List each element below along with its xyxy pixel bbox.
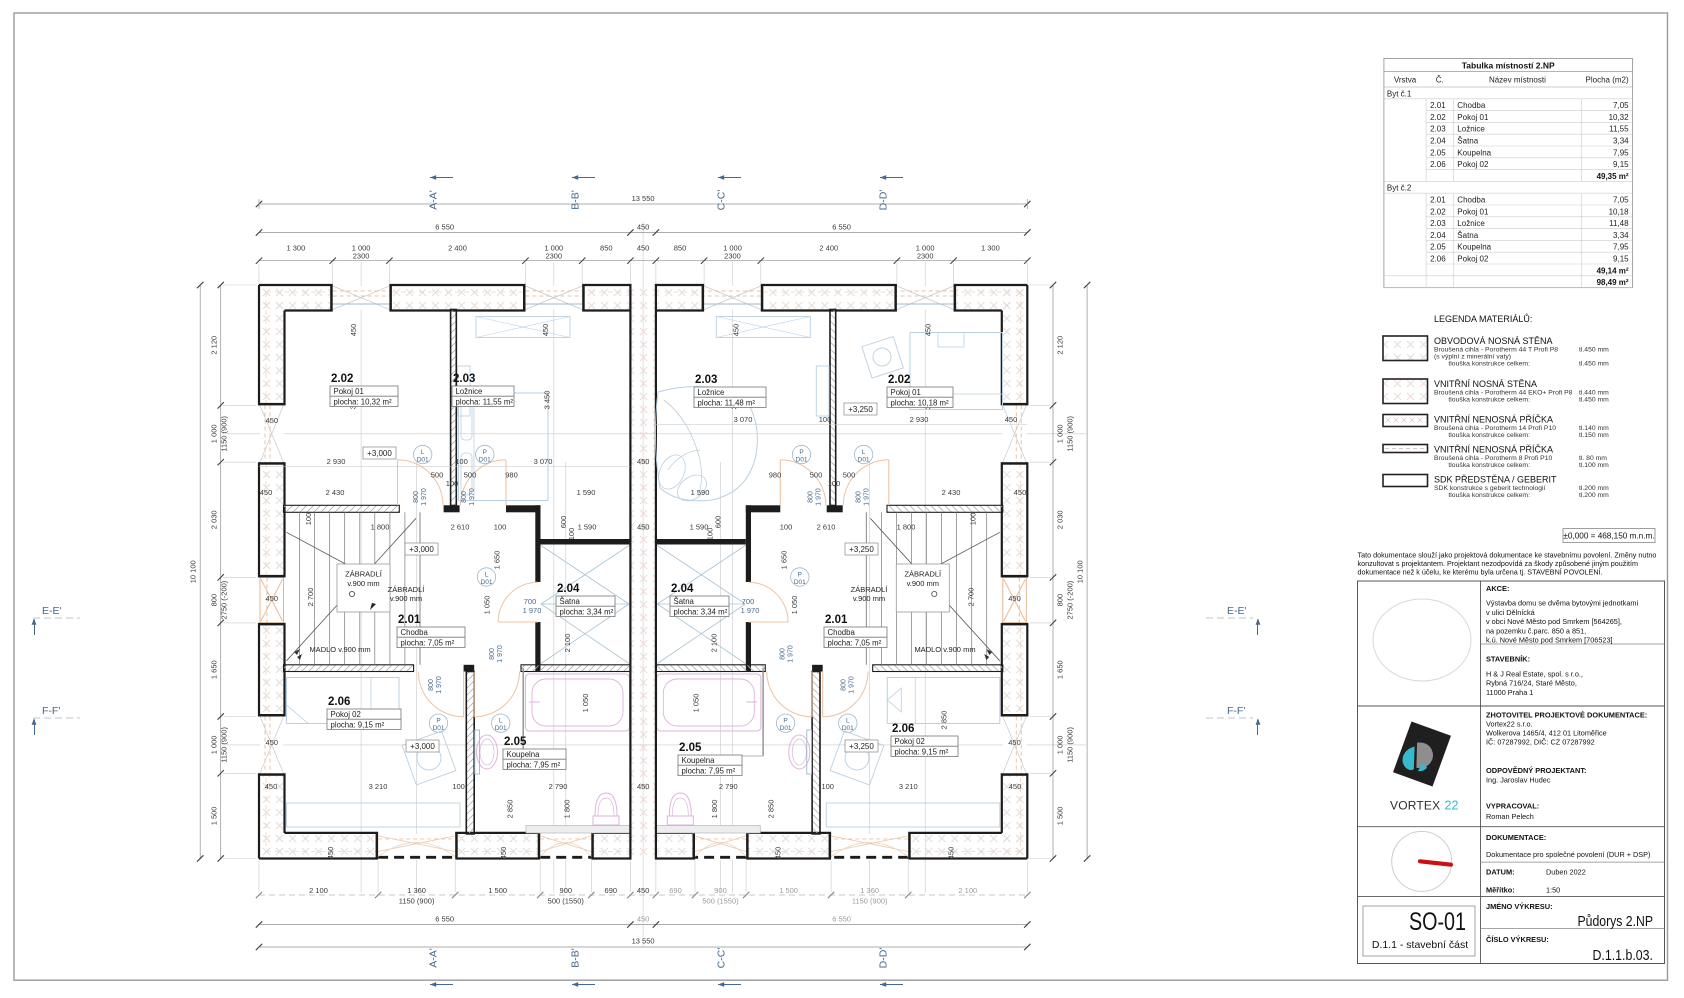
corridor wall east segment	[506, 505, 541, 512]
svg-text:+3,000: +3,000	[367, 449, 392, 458]
svg-text:13 550: 13 550	[632, 937, 655, 946]
svg-text:Chodba: Chodba	[401, 628, 429, 637]
svg-text:ZÁBRADLÍ: ZÁBRADLÍ	[388, 585, 426, 594]
interior dims row left unit y=464	[259, 466, 630, 468]
shower screen	[522, 668, 524, 756]
divider cap	[812, 665, 823, 672]
svg-text:v.900 mm: v.900 mm	[853, 594, 885, 603]
geberit wall	[656, 826, 760, 834]
toilet	[593, 816, 619, 825]
svg-text:Pokoj 01: Pokoj 01	[891, 388, 921, 397]
svg-text:11,55: 11,55	[1609, 125, 1629, 134]
svg-text:2 850: 2 850	[506, 800, 515, 819]
svg-text:Šatna: Šatna	[560, 597, 581, 606]
svg-text:500: 500	[843, 471, 856, 480]
svg-text:tl.200 mm: tl.200 mm	[1579, 492, 1609, 499]
door D01 to room 2.02	[888, 460, 890, 506]
svg-text:2 120: 2 120	[1056, 336, 1065, 355]
wall edge lines	[259, 284, 333, 286]
right dimension column: overall 10100	[1086, 285, 1088, 859]
wardrobe cross 2	[541, 604, 629, 664]
svg-text:450: 450	[1014, 488, 1027, 497]
svg-text:Wolkerova 1465/4, 412 01 Litom: Wolkerova 1465/4, 412 01 Litoměřice	[1486, 729, 1607, 738]
svg-text:plocha: 7,95 m²: plocha: 7,95 m²	[507, 760, 561, 769]
svg-text:DATUM:: DATUM:	[1486, 867, 1515, 876]
section marker B-B' (top)	[572, 177, 595, 179]
svg-text:JMÉNO VÝKRESU:: JMÉNO VÝKRESU:	[1486, 902, 1553, 911]
window (left wall)	[260, 405, 284, 462]
svg-text:v obci Nové Město pod Smrkem [: v obci Nové Město pod Smrkem [564265],	[1486, 617, 1622, 626]
window (bottom wall)	[695, 834, 746, 860]
svg-text:plocha: 7,05 m²: plocha: 7,05 m²	[828, 638, 882, 647]
svg-text:11000 Praha 1: 11000 Praha 1	[1486, 688, 1533, 697]
svg-text:100: 100	[567, 528, 576, 541]
svg-text:690: 690	[605, 886, 618, 895]
svg-text:2 930: 2 930	[327, 457, 346, 466]
svg-text:1 970: 1 970	[787, 645, 794, 663]
svg-text:L: L	[421, 449, 425, 456]
staircase window (left wall)	[1003, 577, 1027, 622]
svg-text:ODPOVĚDNÝ PROJEKTANT:: ODPOVĚDNÝ PROJEKTANT:	[1486, 766, 1586, 775]
svg-text:3 210: 3 210	[899, 782, 918, 791]
handrail arrow	[297, 654, 302, 660]
svg-text:7,05: 7,05	[1613, 101, 1629, 110]
svg-text:2 120: 2 120	[210, 336, 219, 355]
svg-text:2.03: 2.03	[1430, 125, 1446, 134]
svg-text:Koupelna: Koupelna	[507, 750, 541, 759]
svg-text:9,15: 9,15	[1613, 255, 1629, 264]
svg-text:1 970: 1 970	[436, 676, 443, 694]
svg-text:1 970: 1 970	[741, 606, 760, 615]
svg-text:6 550: 6 550	[832, 915, 851, 924]
svg-text:Ložnice: Ložnice	[698, 388, 725, 397]
svg-text:Koupelna: Koupelna	[682, 756, 716, 765]
svg-text:2 610: 2 610	[451, 523, 470, 532]
elevation datum box	[1563, 529, 1655, 543]
svg-text:plocha: 3,34 m²: plocha: 3,34 m²	[674, 607, 728, 616]
bed room 2.03 right (sketchy)	[654, 386, 758, 506]
outer bottom wall	[259, 833, 378, 859]
svg-text:450: 450	[1009, 782, 1022, 791]
svg-text:2.03: 2.03	[453, 373, 475, 385]
svg-text:+3,000: +3,000	[410, 742, 435, 751]
window (bottom wall)	[378, 834, 455, 860]
door D01 to bathroom 2.05	[811, 672, 813, 717]
svg-text:500 (1550): 500 (1550)	[702, 897, 739, 906]
svg-text:Pokoj 02: Pokoj 02	[1457, 160, 1489, 169]
svg-text:Broušená cihla - Porotherm 14: Broušená cihla - Porotherm 14 Profi P10	[1434, 425, 1556, 432]
svg-text:plocha: 9,15 m²: plocha: 9,15 m²	[895, 747, 949, 756]
satna west wall upper	[746, 505, 751, 582]
svg-text:450: 450	[349, 324, 358, 337]
svg-text:P: P	[799, 449, 803, 456]
svg-text:MADLO v.900 mm: MADLO v.900 mm	[914, 645, 975, 654]
elevation marker +3,000	[405, 543, 438, 555]
svg-text:100: 100	[494, 523, 507, 532]
svg-text:F-F': F-F'	[42, 705, 60, 717]
svg-text:D-D': D-D'	[878, 948, 890, 969]
svg-text:1 650: 1 650	[780, 551, 789, 570]
svg-text:Chodba: Chodba	[828, 628, 856, 637]
interior dims row right unit y=422	[656, 424, 1027, 426]
satna north wall	[656, 539, 746, 545]
svg-text:v.900 mm: v.900 mm	[347, 579, 379, 588]
svg-text:2 100: 2 100	[958, 886, 977, 895]
svg-text:tlouška konstrukce celkem:: tlouška konstrukce celkem:	[1448, 432, 1530, 439]
svg-text:2750 (-200): 2750 (-200)	[220, 580, 229, 619]
bed room 2.06 left	[287, 678, 400, 724]
svg-text:A-A': A-A'	[428, 190, 440, 210]
door D01 to satna 2.04	[748, 621, 788, 623]
svg-text:49,14 m²: 49,14 m²	[1597, 266, 1629, 275]
svg-text:Šatna: Šatna	[1457, 137, 1478, 146]
svg-text:450: 450	[1008, 594, 1021, 603]
svg-text:450: 450	[541, 324, 550, 337]
svg-text:2 100: 2 100	[709, 634, 718, 653]
svg-text:1 000: 1 000	[1056, 736, 1065, 755]
svg-text:600: 600	[559, 516, 568, 529]
svg-text:Broušená cihla - Porotherm 44: Broušená cihla - Porotherm 44 T Profi P8	[1434, 347, 1558, 354]
svg-text:450: 450	[265, 782, 278, 791]
svg-text:1 650: 1 650	[493, 551, 502, 570]
svg-text:1 800: 1 800	[897, 523, 916, 532]
desk 2.06 right	[826, 803, 1000, 827]
svg-text:2.05: 2.05	[504, 736, 527, 748]
svg-text:2.06: 2.06	[1430, 255, 1446, 264]
svg-text:(s výplní z minerální vaty): (s výplní z minerální vaty)	[1434, 354, 1511, 361]
svg-text:VORTEX: VORTEX	[1390, 799, 1440, 813]
svg-text:1 800: 1 800	[371, 523, 390, 532]
bathroom north wall (hatched)	[521, 665, 630, 672]
svg-text:na pozemku č.parc. 850 a 851,: na pozemku č.parc. 850 a 851,	[1486, 626, 1586, 635]
svg-text:plocha: 3,34 m²: plocha: 3,34 m²	[560, 607, 614, 616]
chair 2.06 left	[402, 731, 456, 785]
svg-text:450: 450	[637, 244, 650, 253]
svg-text:100: 100	[780, 523, 793, 532]
window (top wall)	[333, 286, 390, 310]
party wall	[630, 285, 656, 859]
svg-text:450: 450	[266, 738, 279, 747]
wall insulation line	[656, 291, 1020, 293]
svg-text:11,48: 11,48	[1609, 219, 1629, 228]
svg-text:Koupelna: Koupelna	[1457, 148, 1491, 157]
svg-text:Ložnice: Ložnice	[1457, 219, 1485, 228]
svg-text:tlouška konstrukce celkem:: tlouška konstrukce celkem:	[1448, 462, 1530, 469]
svg-text:2.03: 2.03	[695, 374, 717, 386]
svg-text:2 700: 2 700	[966, 588, 975, 607]
svg-text:800: 800	[855, 491, 862, 503]
svg-text:ZÁBRADLÍ: ZÁBRADLÍ	[851, 585, 889, 594]
washbasin	[789, 735, 810, 769]
desk 2.03 right	[816, 366, 829, 416]
svg-text:Pokoj 02: Pokoj 02	[895, 737, 925, 746]
svg-text:1150 (900): 1150 (900)	[1066, 415, 1075, 451]
svg-text:800: 800	[461, 491, 468, 503]
left unit geometry	[259, 285, 630, 860]
svg-text:2 400: 2 400	[819, 244, 838, 253]
legend item SDK PŘEDSTĚNA / GEBERIT	[1383, 475, 1428, 487]
svg-text:1 970: 1 970	[497, 645, 504, 663]
svg-text:1 800: 1 800	[562, 800, 571, 819]
svg-text:2.03: 2.03	[1430, 219, 1446, 228]
svg-text:Chodba: Chodba	[1457, 101, 1486, 110]
svg-text:tl. 80 mm: tl. 80 mm	[1579, 455, 1607, 462]
svg-text:plocha: 10,18 m²: plocha: 10,18 m²	[891, 398, 949, 407]
left dimension column: detailed	[220, 285, 222, 859]
svg-text:2 850: 2 850	[939, 711, 948, 730]
satna west wall upper	[535, 505, 540, 582]
top dimension row: overall 13550	[259, 203, 1027, 205]
svg-text:2750 (-200): 2750 (-200)	[1066, 580, 1075, 619]
svg-text:1 500: 1 500	[1056, 807, 1065, 826]
svg-text:10,18: 10,18	[1609, 207, 1630, 216]
partition wall between rooms 2.02 and 2.03	[451, 310, 457, 506]
svg-text:450: 450	[266, 594, 279, 603]
svg-text:2.01: 2.01	[1430, 101, 1446, 110]
svg-text:7,95: 7,95	[1613, 243, 1629, 252]
svg-text:P: P	[436, 718, 440, 725]
svg-text:Broušená cihla - Porotherm 8 P: Broušená cihla - Porotherm 8 Profi P10	[1434, 455, 1552, 462]
left dimension column: overall 10100	[199, 285, 201, 859]
svg-text:v.900 mm: v.900 mm	[390, 594, 422, 603]
svg-text:plocha: 7,05 m²: plocha: 7,05 m²	[401, 638, 455, 647]
svg-text:2.02: 2.02	[1430, 113, 1446, 122]
window (left wall)	[1003, 717, 1027, 774]
svg-text:450: 450	[731, 324, 740, 337]
svg-text:MADLO v.900 mm: MADLO v.900 mm	[309, 645, 370, 654]
svg-text:Duben 2022: Duben 2022	[1546, 867, 1586, 876]
svg-text:2.05: 2.05	[1430, 243, 1446, 252]
svg-text:STAVEBNÍK:: STAVEBNÍK:	[1486, 655, 1530, 664]
svg-text:800: 800	[210, 594, 219, 607]
svg-text:D01: D01	[796, 457, 808, 464]
svg-text:OBVODOVÁ NOSNÁ STĚNA: OBVODOVÁ NOSNÁ STĚNA	[1434, 336, 1553, 346]
svg-text:tl.450 mm: tl.450 mm	[1579, 361, 1609, 368]
svg-text:Broušená cihla - Porotherm 44: Broušená cihla - Porotherm 44 EKO+ Profi…	[1434, 390, 1573, 397]
svg-text:2300: 2300	[353, 251, 370, 260]
svg-text:tl.440 mm: tl.440 mm	[1579, 390, 1609, 397]
svg-text:D01: D01	[842, 725, 854, 732]
outer top wall	[954, 285, 1028, 311]
svg-text:10 100: 10 100	[1076, 560, 1085, 583]
svg-text:VNITŘNÍ NENOSNÁ PŘÍČKA: VNITŘNÍ NENOSNÁ PŘÍČKA	[1434, 445, 1553, 455]
svg-text:2 100: 2 100	[309, 886, 328, 895]
svg-text:Koupelna: Koupelna	[1457, 243, 1491, 252]
top dimension row: detailed	[259, 260, 1027, 262]
svg-text:2 100: 2 100	[563, 634, 572, 653]
svg-text:v.900 mm: v.900 mm	[907, 579, 939, 588]
svg-text:D01: D01	[858, 457, 870, 464]
svg-text:Pokoj 01: Pokoj 01	[1457, 113, 1489, 122]
wardrobe 2.03 left	[476, 317, 570, 338]
svg-text:100: 100	[455, 457, 468, 466]
top dimension row: 6550/450/6550	[259, 232, 1027, 234]
wardrobe cross 2	[657, 604, 745, 664]
svg-text:100: 100	[821, 782, 834, 791]
washbasin	[477, 735, 498, 769]
svg-text:1 050: 1 050	[691, 694, 700, 713]
svg-text:900: 900	[714, 886, 727, 895]
svg-text:1 050: 1 050	[790, 596, 799, 615]
bottom dimension row: detailed	[259, 894, 1027, 896]
window (bottom wall)	[831, 834, 908, 860]
partition wall between rooms 2.02 and 2.03	[830, 310, 836, 506]
svg-text:2.02: 2.02	[888, 374, 910, 386]
legend item VNITŘNÍ NOSNÁ STĚNA	[1383, 379, 1428, 404]
svg-text:2 400: 2 400	[448, 244, 467, 253]
svg-text:2 430: 2 430	[326, 488, 345, 497]
svg-text:VNITŘNÍ NOSNÁ STĚNA: VNITŘNÍ NOSNÁ STĚNA	[1434, 379, 1537, 389]
svg-text:450: 450	[499, 847, 508, 860]
svg-text:450: 450	[924, 324, 933, 337]
partition foot at corridor	[827, 505, 843, 512]
svg-text:2.06: 2.06	[892, 723, 914, 735]
room 2.02 south wall (hatched)	[284, 505, 400, 512]
svg-text:1 650: 1 650	[1056, 660, 1065, 679]
svg-text:plocha: 11,48 m²: plocha: 11,48 m²	[698, 398, 756, 407]
svg-text:100: 100	[828, 479, 841, 488]
svg-text:2.04: 2.04	[1430, 137, 1446, 146]
svg-text:1150 (900): 1150 (900)	[399, 897, 435, 906]
outer left wall	[1002, 285, 1028, 405]
svg-text:450: 450	[1005, 415, 1018, 424]
svg-text:2 790: 2 790	[719, 782, 738, 791]
chair 2.06 right	[830, 731, 884, 785]
svg-text:tl.450 mm: tl.450 mm	[1579, 347, 1609, 354]
svg-text:1 970: 1 970	[848, 676, 855, 694]
svg-text:±0,000 = 468,150 m.n.m.: ±0,000 = 468,150 m.n.m.	[1563, 532, 1654, 541]
svg-text:plocha: 10,32 m²: plocha: 10,32 m²	[334, 397, 392, 406]
svg-text:D.1.1 - stavební část: D.1.1 - stavební část	[1372, 939, 1468, 951]
svg-text:1 000: 1 000	[210, 424, 219, 443]
window (left wall)	[260, 717, 284, 774]
svg-text:600: 600	[713, 516, 722, 529]
svg-text:500 (1550): 500 (1550)	[548, 897, 585, 906]
svg-text:450: 450	[773, 847, 782, 860]
section marker A-A' (top)	[430, 177, 453, 179]
outer bottom wall	[908, 833, 1027, 859]
svg-text:k.ú. Nové Město pod Smrkem [70: k.ú. Nové Město pod Smrkem [706523]	[1486, 636, 1613, 645]
door D01 to satna 2.04	[498, 621, 538, 623]
desk 2.06 left	[287, 803, 461, 827]
window (top wall)	[897, 286, 954, 310]
handrail arrow	[984, 654, 989, 660]
elevation marker +3,000	[406, 740, 439, 752]
door D01 to room 2.03	[505, 460, 507, 506]
svg-text:2 030: 2 030	[1056, 510, 1065, 529]
svg-text:10,32: 10,32	[1609, 113, 1630, 122]
svg-text:SO-01: SO-01	[1409, 908, 1466, 936]
svg-text:+3,250: +3,250	[849, 545, 874, 554]
svg-text:VYPRACOVAL:: VYPRACOVAL:	[1486, 802, 1539, 811]
wardrobe cross 1	[541, 546, 629, 605]
svg-text:VNITŘNÍ NENOSNÁ PŘÍČKA: VNITŘNÍ NENOSNÁ PŘÍČKA	[1434, 415, 1553, 425]
svg-text:Půdorys 2.NP: Půdorys 2.NP	[1578, 914, 1654, 930]
svg-text:1 300: 1 300	[287, 244, 306, 253]
svg-text:E-E': E-E'	[42, 605, 62, 617]
svg-text:Plocha (m2): Plocha (m2)	[1586, 76, 1629, 85]
door D01 to room 2.03	[779, 460, 781, 506]
svg-text:tl.450 mm: tl.450 mm	[1579, 397, 1609, 404]
legend item OBVODOVÁ NOSNÁ STĚNA	[1383, 336, 1428, 361]
svg-text:1 050: 1 050	[581, 694, 590, 713]
staircase	[299, 512, 301, 665]
legend item VNITŘNÍ NENOSNÁ PŘÍČKA	[1383, 415, 1428, 427]
svg-text:2 790: 2 790	[549, 782, 568, 791]
svg-text:2.01: 2.01	[1430, 196, 1446, 205]
svg-text:D.1.1.b.03.: D.1.1.b.03.	[1593, 948, 1654, 964]
svg-text:6 550: 6 550	[435, 915, 454, 924]
svg-text:1150 (900): 1150 (900)	[220, 415, 229, 451]
svg-text:450: 450	[637, 782, 650, 791]
axis lines through window centres	[360, 262, 362, 893]
svg-text:2.05: 2.05	[1430, 148, 1446, 157]
svg-text:2300: 2300	[724, 251, 741, 260]
bathroom north wall (hatched)	[656, 665, 765, 672]
svg-text:ZÁBRADLÍ: ZÁBRADLÍ	[345, 570, 383, 579]
svg-text:3,34: 3,34	[1613, 137, 1629, 146]
svg-text:2 430: 2 430	[942, 488, 961, 497]
svg-text:P: P	[483, 449, 487, 456]
svg-text:Ložnice: Ložnice	[456, 387, 483, 396]
bathtub	[525, 674, 629, 731]
svg-text:450: 450	[260, 488, 273, 497]
elevation marker +3,250	[844, 403, 877, 415]
svg-text:2 030: 2 030	[210, 510, 219, 529]
svg-text:2.05: 2.05	[679, 742, 702, 754]
svg-text:Byt č.2: Byt č.2	[1387, 184, 1412, 193]
svg-text:100: 100	[968, 513, 977, 526]
shower screen	[762, 668, 764, 756]
svg-text:1 000: 1 000	[210, 736, 219, 755]
svg-text:SDK PŘEDSTĚNA / GEBERIT: SDK PŘEDSTĚNA / GEBERIT	[1434, 475, 1557, 485]
wall between 2.06 and 2.05	[812, 672, 820, 834]
svg-text:1150 (900): 1150 (900)	[1066, 727, 1075, 763]
svg-text:450: 450	[637, 523, 650, 532]
door D01 to room 2.06	[822, 672, 824, 717]
staircase window (left wall)	[260, 577, 284, 622]
svg-text:LEGENDA MATERIÁLŮ:: LEGENDA MATERIÁLŮ:	[1434, 313, 1532, 324]
partition foot at corridor	[444, 505, 460, 512]
svg-text:2 850: 2 850	[767, 800, 776, 819]
svg-text:2.02: 2.02	[1430, 207, 1446, 216]
door D01 to room 2.06	[463, 672, 465, 717]
svg-text:2.01: 2.01	[398, 614, 421, 626]
svg-text:tl.100 mm: tl.100 mm	[1579, 462, 1609, 469]
svg-text:Vrstva: Vrstva	[1394, 76, 1417, 85]
north circle with red needle	[1392, 831, 1452, 891]
svg-text:Rybná 716/24, Staré Město,: Rybná 716/24, Staré Město,	[1486, 679, 1577, 688]
svg-text:1 970: 1 970	[523, 606, 542, 615]
svg-text:F-F': F-F'	[1227, 705, 1245, 717]
svg-text:D01: D01	[417, 457, 429, 464]
svg-text:1 970: 1 970	[421, 488, 428, 506]
wardrobe 2.03 right	[716, 317, 810, 338]
svg-text:D01: D01	[780, 725, 792, 732]
svg-text:450: 450	[637, 223, 650, 232]
svg-text:100: 100	[446, 479, 459, 488]
svg-text:800: 800	[489, 648, 496, 660]
svg-text:Vortex22 s.r.o.: Vortex22 s.r.o.	[1486, 720, 1533, 729]
svg-text:7,05: 7,05	[1613, 196, 1629, 205]
room 2.02 south wall (hatched)	[887, 505, 1003, 512]
svg-text:D01: D01	[481, 579, 493, 586]
svg-text:1 590: 1 590	[577, 488, 596, 497]
svg-text:v ulici Dělnícká: v ulici Dělnícká	[1486, 608, 1536, 617]
svg-text:tl.140 mm: tl.140 mm	[1579, 425, 1609, 432]
svg-text:tlouška konstrukce celkem:: tlouška konstrukce celkem:	[1448, 397, 1530, 404]
svg-text:800: 800	[807, 491, 814, 503]
